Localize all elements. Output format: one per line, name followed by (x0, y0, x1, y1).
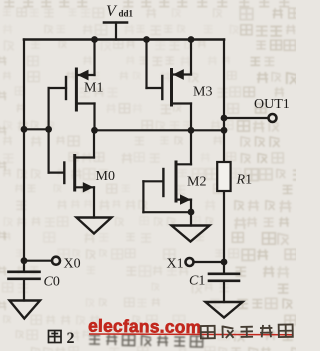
node junction dot coupling-left-A (21, 126, 28, 133)
transistor M3 (147, 40, 192, 131)
node junction dot coupling-left-B (45, 126, 52, 133)
capacitor C1 (209, 262, 239, 302)
svg-text:C1: C1 (189, 274, 205, 289)
label C1 (189, 274, 205, 289)
transistor M0 (49, 130, 94, 217)
label M2 (187, 175, 206, 190)
wire Vdd stub (115, 23, 117, 40)
terminal X0 (52, 257, 60, 265)
transistor M1 (49, 40, 95, 131)
wire right OUT branch vertical upper (223, 40, 225, 163)
svg-text:M2: M2 (187, 175, 206, 190)
node junction dot coupling-M3M2 (188, 127, 195, 134)
node junction dot coupling-M1M0 (91, 127, 98, 134)
wire right OUT branch vertical lower (223, 191, 225, 262)
watermark underline (89, 333, 292, 336)
label X1 (167, 257, 184, 272)
watermark elecfans.com (88, 315, 202, 337)
node junction dot M2 source-gate (188, 209, 195, 216)
node junction dot rail-M3gate (143, 36, 150, 43)
label X0 (64, 257, 81, 272)
wire top Vdd rail (24, 38, 224, 41)
label Vdd1 (106, 3, 134, 20)
wire M1 gate drop (47, 88, 49, 173)
svg-text:2: 2 (67, 330, 75, 347)
wire M2 gate feedback (143, 181, 191, 212)
svg-text:OUT1: OUT1 (254, 97, 290, 112)
wire M3 gate to rail (145, 40, 147, 89)
caption bleed text low-power oscillator (gray hanzi approximations) (89, 334, 203, 347)
svg-text:dd1: dd1 (119, 9, 134, 19)
wire cross-coupling line left segment (24, 128, 49, 130)
label M1 (84, 81, 103, 96)
node junction dot rail-M1 (91, 36, 98, 43)
svg-text:V: V (106, 3, 118, 20)
terminal OUT1 (269, 114, 277, 122)
wire OUT1 lead (224, 117, 268, 119)
wire left branch vertical (23, 40, 25, 261)
ground under M0 (77, 218, 112, 234)
node junction dot coupling-right (221, 127, 228, 134)
svg-text:M3: M3 (193, 85, 212, 100)
label figure caption "tu 2" (49, 331, 62, 343)
svg-text:M0: M0 (96, 169, 115, 184)
transistor M2 (143, 130, 191, 212)
capacitor C0 (9, 261, 40, 301)
svg-text:X1: X1 (167, 257, 184, 272)
power terminal Vdd1 bar (104, 21, 127, 24)
node junction dot OUT tap (221, 115, 228, 122)
watermark dianzifashaoyou (brush hanzi approximations) (201, 324, 293, 338)
ground under C0 (10, 301, 41, 319)
wire X1 lead (194, 261, 224, 263)
svg-text:R1: R1 (236, 173, 253, 188)
wire M2 source to ground stem (190, 212, 192, 225)
node junction dot rail-M3 (188, 36, 195, 43)
wire X0 lead (24, 260, 51, 262)
label R1 (236, 173, 253, 188)
wire cross-coupling line right segment (95, 129, 225, 131)
svg-text:X0: X0 (64, 257, 81, 272)
ground under C1 (206, 302, 243, 318)
label M3 (193, 85, 212, 100)
label C0 (44, 275, 60, 290)
node junction dot X0 (21, 257, 28, 264)
label OUT1 (254, 97, 290, 112)
resistor R1 (217, 162, 230, 191)
ground under M2 (172, 226, 210, 242)
svg-text:C0: C0 (44, 275, 60, 290)
terminal X1 (186, 258, 194, 266)
node junction dot X1 (221, 259, 228, 266)
svg-text:M1: M1 (84, 81, 103, 96)
label M0 (96, 169, 115, 184)
